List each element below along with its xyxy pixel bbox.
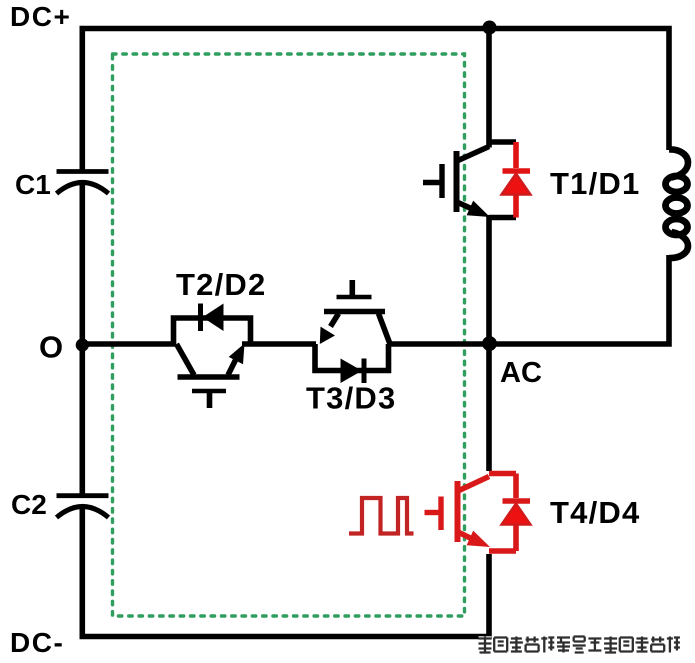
diode D3 (341, 359, 365, 384)
wire: left rail below C2 plus DC- bottom rail and T4 bottom drop (82, 506, 489, 637)
PWM gate signal (red square wave) (349, 498, 414, 534)
transistor T3 (IGBT, gate up) (320, 280, 390, 344)
svg-text:AC: AC (500, 357, 542, 389)
wire: T1 diode branch bottom (489, 215, 516, 221)
node: O junction dot (76, 338, 89, 351)
transistor T4 (IGBT, red) (425, 477, 491, 548)
wire: middle rail O to T2 (82, 341, 176, 347)
diode D2 loop (174, 318, 251, 344)
wire: left rail between C1 and C2 (80, 184, 86, 497)
green dashed boundary box (113, 54, 465, 616)
wire: DC+ top rail with left drop and right drop to inductor (82, 29, 669, 172)
node: DC+ junction dot (483, 21, 497, 35)
watermark (479, 637, 680, 653)
svg-text:DC+: DC+ (10, 1, 71, 32)
inductor L (666, 149, 689, 258)
wire: middle rail T3 to AC to inductor (388, 255, 669, 344)
capacitor C2 (57, 496, 109, 518)
svg-text:C1: C1 (15, 169, 51, 200)
svg-text:DC-: DC- (10, 627, 64, 658)
transistor T1 (IGBT) (423, 147, 490, 218)
svg-text:T4/D4: T4/D4 (550, 495, 640, 530)
svg-text:T1/D1: T1/D1 (550, 166, 640, 201)
diode D3 loop (315, 344, 389, 371)
svg-text:C2: C2 (11, 489, 47, 520)
transistor T2 (IGBT, gate down) (177, 344, 245, 409)
diode D1 (red) (502, 142, 531, 218)
wire: middle rail T2 to T3 (242, 341, 316, 347)
wire: T1 diode branch top (489, 139, 516, 145)
svg-text:O: O (39, 330, 63, 365)
diode D2 (201, 304, 224, 332)
diode D4 (red) (502, 474, 531, 552)
svg-text:T3/D3: T3/D3 (306, 381, 396, 416)
wire: T1 branch vertical top (486, 26, 492, 148)
wire: T1 branch vertical bottom to AC node and down to T4 (486, 215, 492, 471)
node: AC junction dot (482, 336, 497, 351)
capacitor C1 (57, 172, 109, 194)
wire: T4 diode branch top (red) (489, 471, 516, 477)
svg-text:T2/D2: T2/D2 (176, 267, 266, 302)
wire: T4 diode branch bottom (red) (489, 548, 516, 554)
